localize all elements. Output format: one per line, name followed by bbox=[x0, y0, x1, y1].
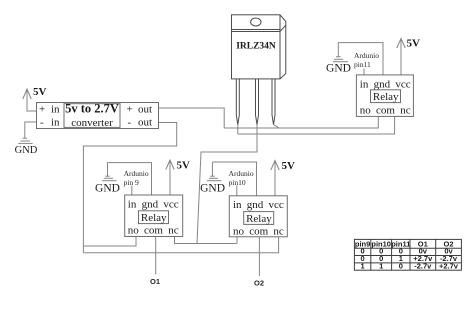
label Arduino pin11 bbox=[354, 51, 379, 69]
wire: relay U2 no to -2.7V rail bbox=[83, 237, 136, 247]
svg-text:5V: 5V bbox=[177, 160, 191, 172]
wire: Arduino pin11 to relay U4 in bbox=[363, 69, 365, 75]
truth table bbox=[354, 239, 461, 270]
DC-DC converter U1 (5v to 2.7V) bbox=[37, 102, 159, 129]
5V supply arrow (converter input) bbox=[23, 86, 47, 111]
svg-text:GND: GND bbox=[200, 183, 225, 195]
svg-text:O2: O2 bbox=[254, 279, 264, 288]
svg-text:GND: GND bbox=[95, 183, 120, 195]
svg-text:Relay: Relay bbox=[373, 91, 399, 103]
label Arduino pin10 bbox=[229, 169, 254, 187]
transistor Q1 IRLZ34N (TO-220 package) bbox=[232, 15, 286, 79]
svg-text:5v to 2.7V: 5v to 2.7V bbox=[65, 102, 119, 116]
svg-text:no com nc: no com nc bbox=[360, 105, 411, 117]
5V supply arrow (relay U2) bbox=[166, 160, 190, 196]
wire: converter -out to -2.7V rail bbox=[83, 123, 176, 253]
wire: -2.7V bottom rail bbox=[83, 237, 278, 253]
wire: Arduino pin 9 to relay U2 in bbox=[131, 186, 133, 196]
wire: ground to relay U3 gnd pin bbox=[212, 162, 256, 196]
svg-text:1: 1 bbox=[379, 262, 383, 271]
Q1 pin 3 (source leg) bbox=[272, 79, 275, 125]
svg-text:no com nc: no com nc bbox=[128, 225, 179, 237]
svg-text:Ardunio: Ardunio bbox=[229, 169, 254, 178]
svg-text:-: - bbox=[128, 117, 132, 129]
wire: Arduino pin10 to relay U3 in bbox=[236, 186, 238, 196]
svg-text:IRLZ34N: IRLZ34N bbox=[236, 42, 276, 52]
svg-text:Relay: Relay bbox=[246, 213, 272, 225]
label Arduino pin 9 bbox=[124, 169, 149, 187]
wire: converter +out to node bbox=[159, 108, 225, 128]
svg-text:out: out bbox=[138, 103, 152, 115]
wire: relay U2 com to output O1 bbox=[155, 237, 157, 275]
svg-text:5V: 5V bbox=[33, 86, 47, 98]
wire: relay U2 nc to drain net bbox=[175, 237, 238, 244]
relay U4 (pin11 relay) bbox=[356, 75, 413, 117]
Q1 pin 2 (drain leg) bbox=[256, 79, 259, 125]
ground (relay U4, pin11) bbox=[326, 43, 351, 75]
ground (converter input) bbox=[15, 138, 38, 156]
svg-text:in gnd vcc: in gnd vcc bbox=[128, 198, 179, 210]
wire: relay U3 no stub bbox=[236, 237, 238, 244]
Q1 pin 1 (gate leg) bbox=[236, 79, 239, 125]
relay U3 (pin10 relay) bbox=[229, 196, 287, 238]
svg-text:5V: 5V bbox=[282, 160, 296, 172]
wire: relay U3 com to output O2 bbox=[258, 237, 260, 276]
svg-text:in gnd vcc: in gnd vcc bbox=[233, 199, 284, 211]
svg-text:0: 0 bbox=[399, 262, 403, 271]
svg-text:Ardunio: Ardunio bbox=[354, 51, 379, 60]
svg-text:GND: GND bbox=[15, 145, 38, 156]
svg-text:O1: O1 bbox=[150, 277, 160, 286]
svg-text:Relay: Relay bbox=[141, 212, 167, 224]
ground (relay U3, pin10) bbox=[200, 162, 225, 195]
svg-text:+2.7v: +2.7v bbox=[439, 262, 459, 271]
svg-text:in gnd vcc: in gnd vcc bbox=[360, 79, 411, 91]
svg-text:+: + bbox=[39, 103, 45, 115]
svg-text:out: out bbox=[138, 117, 152, 129]
wire: source leg tap to +2.7V rail bbox=[274, 125, 280, 129]
svg-text:in: in bbox=[51, 117, 60, 129]
wire: converter -in to ground bbox=[25, 122, 37, 138]
5V supply arrow (relay U3) bbox=[271, 160, 295, 196]
svg-text:Ardunio: Ardunio bbox=[124, 169, 149, 178]
svg-text:in: in bbox=[51, 103, 60, 115]
svg-text:pin11: pin11 bbox=[354, 60, 371, 69]
svg-text:converter: converter bbox=[71, 117, 113, 129]
wire: drain leg down to output net bbox=[197, 125, 257, 244]
svg-text:+: + bbox=[127, 103, 133, 115]
wire: ground to relay U4 gnd pin bbox=[338, 43, 383, 75]
wire: +2.7V rail to relay U4 com bbox=[224, 116, 378, 128]
relay U2 (pin 9 relay) bbox=[125, 195, 183, 237]
svg-text:5V: 5V bbox=[407, 38, 421, 50]
svg-text:GND: GND bbox=[326, 63, 351, 75]
svg-text:-2.7v: -2.7v bbox=[414, 262, 432, 271]
5V supply arrow (relay U4) bbox=[397, 38, 420, 75]
svg-text:-: - bbox=[40, 117, 44, 129]
ground (relay U2, pin 9) bbox=[95, 163, 120, 195]
wire: ground to relay U2 gnd pin bbox=[107, 163, 151, 195]
wire: gate leg to relay U4 nc bbox=[237, 125, 239, 135]
svg-text:1: 1 bbox=[361, 262, 365, 271]
svg-text:no com nc: no com nc bbox=[233, 225, 284, 237]
